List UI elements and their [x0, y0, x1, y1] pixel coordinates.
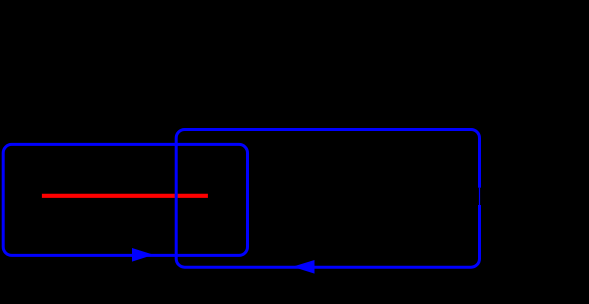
- arrowhead on C2 bottom edge (pointing left): [293, 260, 315, 274]
- gap mask on C2 right edge: [477, 188, 483, 205]
- thin segment on C2 right edge: [479, 188, 481, 205]
- contour C1 (left loop, counterclockwise): [3, 144, 247, 255]
- red branch cut segment: [42, 194, 208, 198]
- arrowhead on C1 bottom edge (pointing right): [132, 248, 154, 262]
- contour C2 (right loop, clockwise): [176, 130, 479, 268]
